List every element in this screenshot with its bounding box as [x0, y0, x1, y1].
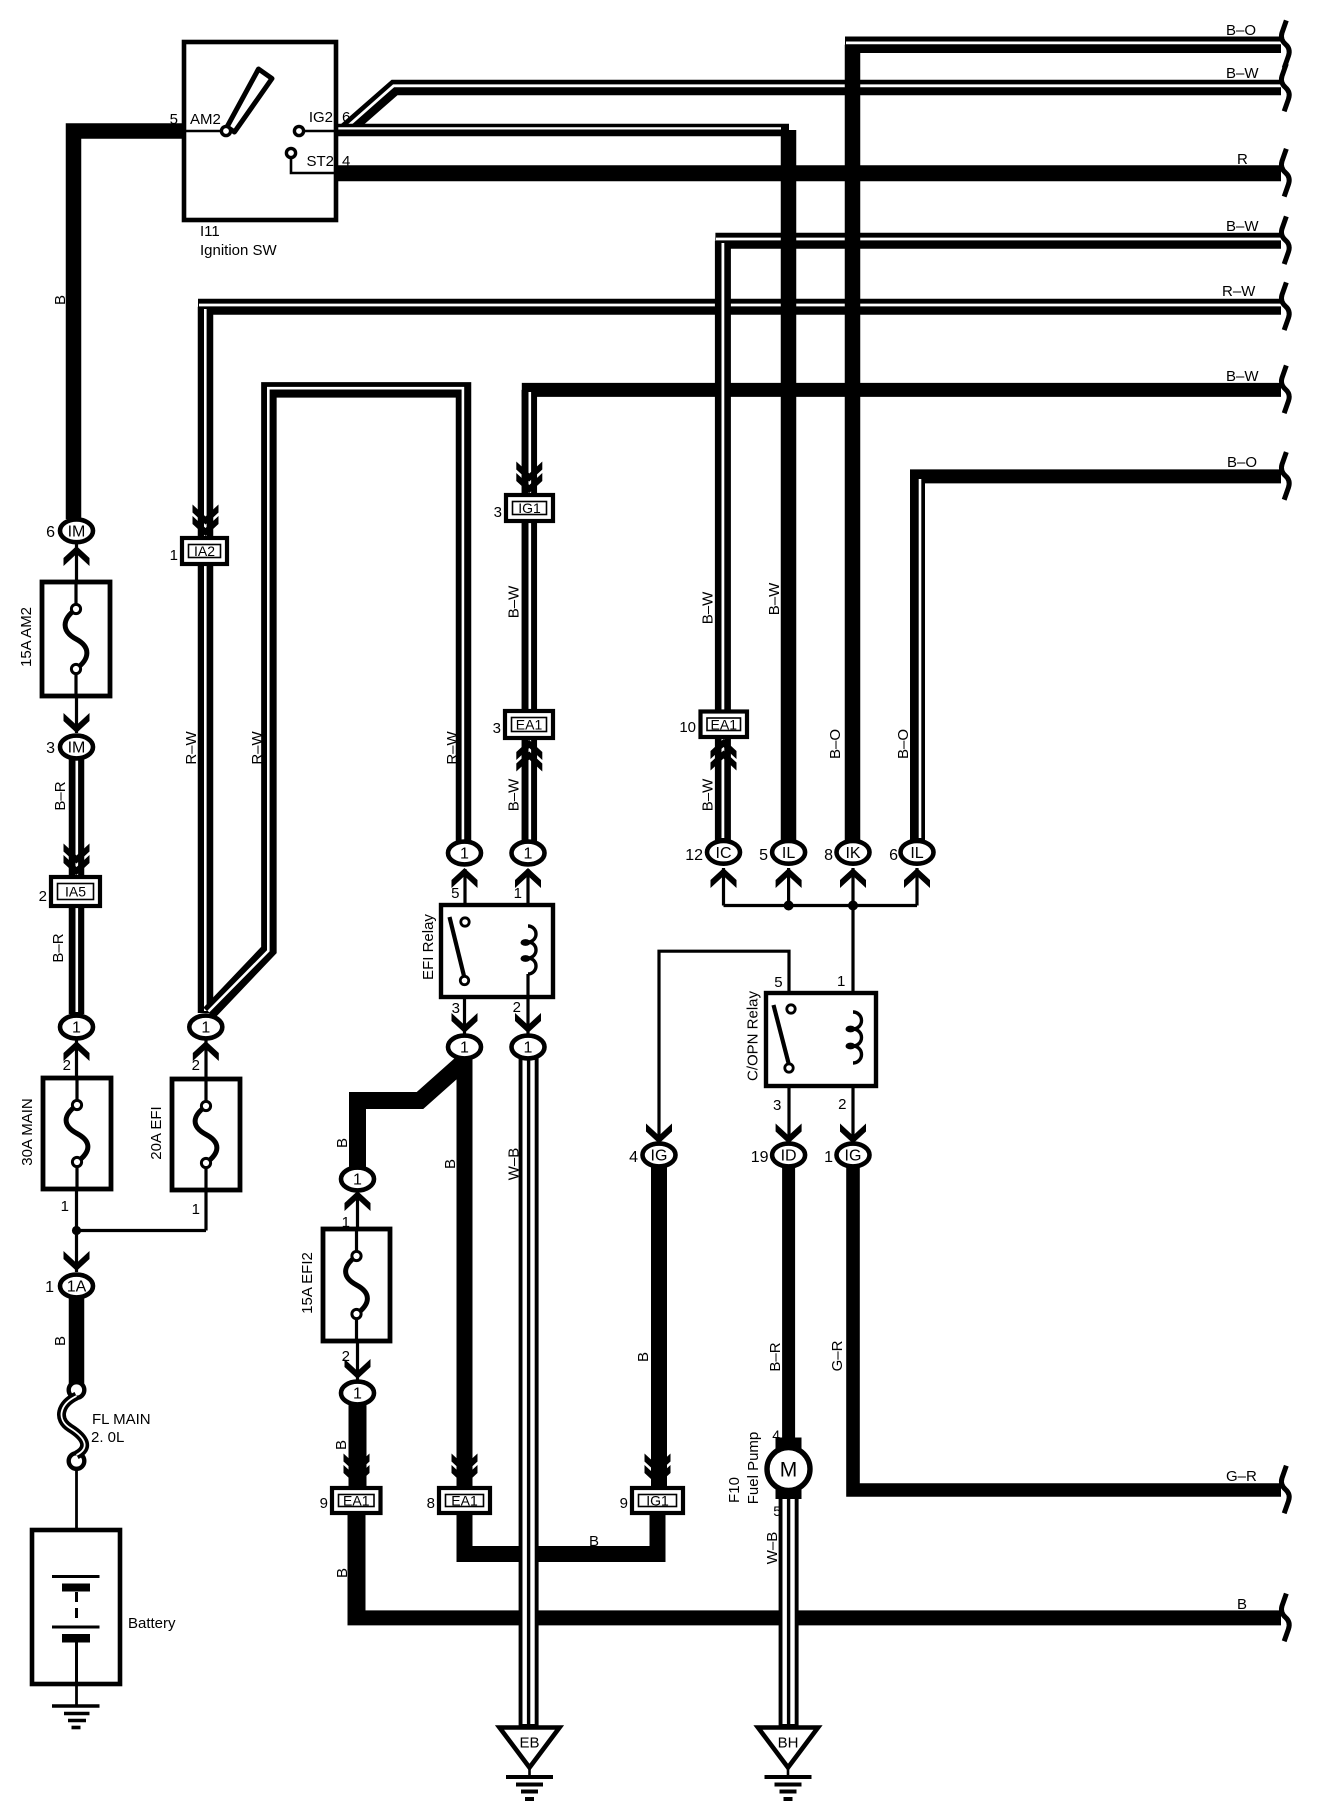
wire B-O: vertical x852 from row 1 corner down to 8 IK, solid — [845, 45, 861, 840]
arrow into 8 IK — [840, 868, 866, 888]
connector 1 1A — [60, 1275, 93, 1298]
svg-text:B: B — [333, 1440, 350, 1450]
wire B: from connector 9 EA1 down x356 — [348, 1510, 366, 1625]
wire B-O: vertical x917 from row 7 corner down to 6 IL (double) — [918, 476, 921, 840]
svg-text:1: 1 — [524, 846, 533, 863]
svg-text:1: 1 — [61, 1198, 69, 1215]
connector 12 IC — [707, 841, 740, 864]
splice 1 above 20A EFI — [189, 1016, 222, 1039]
svg-text:IM: IM — [68, 523, 86, 540]
wire: splice 1 to fuse 20A EFI pin 2 — [204, 1040, 207, 1108]
svg-text:M: M — [780, 1459, 798, 1482]
svg-text:IC: IC — [716, 845, 732, 862]
svg-text:1: 1 — [192, 1201, 200, 1218]
svg-text:3: 3 — [773, 1097, 781, 1114]
fuse 15A AM2 — [42, 582, 110, 696]
arrow into 4 IG — [646, 1124, 672, 1144]
svg-text:15A AM2: 15A AM2 — [18, 607, 35, 667]
svg-text:EA1: EA1 — [516, 717, 543, 733]
svg-text:B: B — [442, 1159, 459, 1169]
svg-text:1: 1 — [342, 1214, 350, 1231]
wire B-R: connector 19 ID down to fuel pump pin 4 — [782, 1167, 795, 1440]
terminator row 8 — [1281, 1468, 1289, 1511]
splice 1 at EFI relay pin 1 — [512, 842, 545, 865]
svg-text:AM2: AM2 — [190, 111, 221, 128]
splice 1 at EFI relay pin 5 — [448, 842, 481, 865]
terminator row 5 — [1281, 285, 1289, 328]
svg-text:1A: 1A — [67, 1279, 87, 1296]
arrow into 1 IA2 — [193, 505, 219, 537]
svg-text:IG1: IG1 — [518, 500, 541, 516]
wire W-B: fuel pump pin 5 down to ground BH (outlined) — [785, 1497, 793, 1726]
wire B: splice 1A down to fusible link FL MAIN — [69, 1296, 85, 1385]
svg-text:IG: IG — [845, 1148, 862, 1165]
svg-text:R–W: R–W — [444, 730, 461, 764]
svg-text:EB: EB — [519, 1735, 539, 1752]
svg-text:IL: IL — [782, 845, 795, 862]
svg-text:1: 1 — [201, 1020, 210, 1037]
wire B: EFI relay pin 3 splice down to 8 EA1 — [457, 1058, 473, 1488]
EFI relay box — [441, 905, 553, 997]
svg-text:Battery: Battery — [128, 1615, 176, 1632]
svg-text:EA1: EA1 — [343, 1493, 370, 1509]
ground BH — [758, 1728, 818, 1800]
arrow into 9 EA1 — [344, 1454, 370, 1486]
svg-text:B–W: B–W — [506, 778, 523, 811]
wire B-O: row 1 to right edge (double) — [845, 43, 1281, 45]
svg-text:6: 6 — [342, 109, 350, 126]
svg-text:B: B — [334, 1568, 351, 1578]
connector 10 EA1 — [701, 712, 748, 738]
wire: C/OPN relay pin 2 to connector 1 IG — [851, 1062, 854, 1144]
svg-text:EA1: EA1 — [451, 1493, 478, 1509]
arrow into 1 IG — [840, 1124, 866, 1144]
svg-text:1: 1 — [824, 1149, 833, 1166]
wire: C/OPN relay pin 5 loop over to connector 4 IG — [659, 951, 789, 1143]
wire B: connector 4 IG down to 9 IG1 — [651, 1167, 667, 1488]
wire: FL MAIN to battery positive plate — [75, 1468, 78, 1575]
svg-text:B–O: B–O — [1226, 22, 1256, 39]
svg-text:W–B: W–B — [506, 1148, 523, 1181]
wire R-W: loop from EFI relay pin 5 up over to x269 and down to splice 1 (double) — [208, 388, 463, 1013]
wire B-W: vertical x723 from row 4 down to 12 IC (double) — [715, 241, 731, 840]
arrow into 1 1A — [64, 1251, 90, 1271]
svg-text:30A MAIN: 30A MAIN — [19, 1098, 36, 1166]
svg-text:1: 1 — [460, 1040, 469, 1057]
connector 1 IA2 — [182, 538, 227, 564]
svg-text:B–R: B–R — [767, 1342, 784, 1371]
svg-text:R–W: R–W — [183, 730, 200, 764]
C/OPN relay coil — [846, 1012, 862, 1063]
wire B-W: ignition IG2 pin 6 horizontal run to x788 (double) — [336, 128, 789, 130]
arrow into splice at EFI relay pin 2 — [515, 1013, 541, 1033]
connector 1 IG — [837, 1144, 870, 1167]
arrow into 3 EA1 — [516, 740, 542, 772]
connector 19 ID — [772, 1144, 805, 1167]
svg-text:1: 1 — [514, 885, 522, 902]
svg-text:5: 5 — [451, 885, 459, 902]
wire W-B: EFI relay pin 2 splice down to ground EB (outlined) — [525, 1058, 533, 1726]
wire: riser to 12 IC — [722, 868, 725, 906]
svg-text:10: 10 — [679, 719, 696, 736]
wire: ST2 terminal stem to box edge — [291, 156, 336, 173]
connector 6 IM — [60, 519, 93, 542]
fuse 30A MAIN — [43, 1078, 111, 1189]
splice 1 at EFI relay pin 2 — [512, 1036, 545, 1059]
svg-text:IG1: IG1 — [646, 1493, 669, 1509]
wire: C/OPN relay pin 3 to connector 19 ID — [787, 1068, 790, 1144]
node: bus junction under 5 IL — [784, 901, 794, 911]
arrow into splice at EFI relay pin 5 — [452, 868, 478, 888]
wire: EFI relay pin 1 to splice 1 — [526, 869, 529, 926]
svg-text:IK: IK — [845, 845, 860, 862]
wire: bus line joining connectors IC IL IK IL to C/OPN relay pin 1 — [724, 904, 918, 907]
wire: junction to fuse 20A EFI pin 1 — [77, 1229, 207, 1232]
arrow into 9 IG1 — [645, 1454, 671, 1486]
C/OPN relay upper contact — [787, 1005, 795, 1013]
svg-text:B–R: B–R — [52, 781, 69, 810]
svg-text:IL: IL — [910, 845, 923, 862]
wire B-W: vertical x529 from row 6 corner down through 3 IG1 and 3 EA1 to EFI relay pin 1 (double) — [522, 390, 538, 842]
svg-text:BH: BH — [778, 1735, 799, 1752]
svg-text:3: 3 — [46, 740, 55, 757]
svg-text:EA1: EA1 — [711, 716, 738, 732]
arrow into 3 IM — [64, 713, 90, 733]
svg-text:F10: F10 — [726, 1477, 743, 1503]
svg-text:FL MAIN: FL MAIN — [92, 1411, 151, 1428]
svg-text:G–R: G–R — [1226, 1468, 1257, 1485]
svg-text:G–R: G–R — [829, 1340, 846, 1371]
terminal IG2 contact — [294, 126, 303, 135]
svg-text:5: 5 — [170, 111, 178, 128]
svg-text:5: 5 — [759, 847, 768, 864]
splice 1 above 30A MAIN — [60, 1016, 93, 1039]
splice 1 above 15A EFI2 — [341, 1168, 374, 1191]
svg-text:2. 0L: 2. 0L — [91, 1429, 124, 1446]
connector 5 IL — [772, 841, 805, 864]
wire: riser to 8 IK — [851, 868, 854, 906]
svg-text:19: 19 — [751, 1149, 769, 1166]
svg-text:20A EFI: 20A EFI — [148, 1106, 165, 1159]
connector 3 IM — [60, 736, 93, 759]
EFI relay lower contact — [460, 976, 468, 984]
svg-text:B–O: B–O — [1227, 454, 1257, 471]
battery lower thin plate — [52, 1626, 100, 1629]
svg-text:8: 8 — [427, 1495, 435, 1512]
svg-text:1: 1 — [460, 846, 469, 863]
svg-text:R–W: R–W — [1222, 283, 1256, 300]
wire: riser to 5 IL — [787, 868, 790, 906]
connector 4 IG — [643, 1144, 676, 1167]
connector 3 IG1 — [506, 495, 553, 521]
arrow into 8 EA1 — [452, 1454, 478, 1486]
svg-text:B–W: B–W — [700, 591, 717, 624]
svg-text:4: 4 — [342, 153, 350, 170]
svg-text:9: 9 — [320, 1495, 328, 1512]
svg-text:3: 3 — [494, 504, 502, 521]
svg-text:B–W: B–W — [1226, 65, 1259, 82]
wire B: bottom row to right edge — [348, 1610, 1282, 1625]
wire G-R: from C/OPN relay pin 2 connector IG down x853 then right edge — [853, 1167, 1281, 1490]
fuse 20A EFI — [172, 1079, 240, 1190]
terminator row 7 — [1281, 454, 1289, 497]
ignition switch lever — [227, 69, 272, 132]
wire: riser to 6 IL — [915, 868, 918, 906]
svg-text:6: 6 — [46, 524, 55, 541]
svg-text:B–R: B–R — [50, 933, 67, 962]
battery positive plate — [52, 1575, 100, 1578]
svg-text:6: 6 — [889, 847, 898, 864]
svg-text:B–W: B–W — [700, 778, 717, 811]
svg-text:ST2: ST2 — [306, 153, 334, 170]
wire B: branch from EFI relay splice to 15A EFI2 fuse via jog — [358, 1064, 462, 1168]
svg-text:B: B — [1237, 1596, 1247, 1613]
arrow into splice below 15A EFI2 — [345, 1359, 371, 1379]
wire R: ignition ST2 pin 4 to right edge, solid thick — [336, 165, 1281, 181]
splice 1 at EFI relay pin 3 — [448, 1036, 481, 1059]
ignition switch I11 box — [184, 42, 336, 220]
arrow into 2 IA5 — [64, 844, 90, 876]
wire: fuse 20A EFI pin 1 down to junction line — [204, 1162, 207, 1231]
connector 3 EA1 — [505, 711, 553, 738]
svg-text:IG: IG — [651, 1148, 668, 1165]
wire B: 15A EFI2 lower splice down to 9 EA1 — [349, 1404, 367, 1488]
fuse 15A EFI2 — [323, 1229, 390, 1341]
svg-text:I11: I11 — [200, 223, 220, 240]
wire: battery negative to box bottom — [75, 1642, 78, 1684]
arrow into 10 EA1 — [711, 739, 737, 771]
wire: EFI relay pin 3 to splice 1 — [463, 984, 466, 1034]
terminal AM2 contact — [221, 126, 230, 135]
connector 9 EA1 — [332, 1488, 381, 1513]
svg-text:C/OPN Relay: C/OPN Relay — [745, 990, 762, 1081]
arrow into splice at EFI relay pin 3 — [452, 1013, 478, 1033]
arrow into splice above 30A MAIN — [64, 1041, 90, 1061]
arrow into splice at EFI relay pin 1 — [515, 868, 541, 888]
svg-text:B–W: B–W — [506, 585, 523, 618]
wire B-W: IG2 branch diagonal up to row 2 then right edge (double) — [346, 86, 1281, 130]
wire B-R: 3 IM to 2 IA5 to splice (double) — [69, 758, 85, 1014]
wire B: battery feed, ignition AM2 pin 5 to left edge then down to 6 IM — [74, 131, 185, 519]
arrow into 6 IM — [64, 546, 90, 566]
svg-text:8: 8 — [824, 847, 833, 864]
terminator row 6 — [1281, 368, 1289, 411]
node: junction dot below 30A MAIN — [72, 1226, 81, 1235]
svg-text:2: 2 — [39, 888, 47, 905]
connector 8 IK — [837, 841, 870, 864]
wire: junction down to splice 1A — [75, 1231, 78, 1273]
svg-text:IA2: IA2 — [194, 543, 215, 559]
wire B-W: vertical x788 from IG2 run down to 5 IL, solid — [781, 130, 797, 840]
svg-text:15A EFI2: 15A EFI2 — [299, 1252, 316, 1314]
wire: splice 1 to fuse 15A EFI2 pin 1 — [356, 1190, 359, 1258]
svg-text:1: 1 — [837, 973, 845, 990]
wire B-W: row 6 from corner x529 to right edge, solid — [522, 383, 1281, 397]
arrow into 6 IL — [904, 868, 930, 888]
svg-text:12: 12 — [685, 847, 703, 864]
svg-text:R–W: R–W — [249, 730, 266, 764]
terminator row 9 — [1281, 1596, 1289, 1639]
arrow into splice above 20A EFI — [193, 1041, 219, 1061]
arrow into splice above 15A EFI2 — [345, 1191, 371, 1211]
arrow into 12 IC — [711, 868, 737, 888]
battery plate bar upper — [62, 1584, 90, 1592]
svg-text:Fuel Pump: Fuel Pump — [745, 1432, 762, 1505]
svg-text:1: 1 — [170, 547, 178, 564]
wire: splice 1 to fuse 30A MAIN pin 2 — [75, 1040, 78, 1108]
svg-text:B–O: B–O — [895, 729, 912, 759]
EFI relay switch arm — [450, 917, 465, 976]
wire: fuse 15A AM2 to 3 IM — [75, 668, 78, 733]
svg-text:2: 2 — [513, 999, 521, 1016]
ground EB — [500, 1728, 560, 1800]
wire: EFI relay pin 2 to splice 1 — [526, 997, 529, 1034]
terminator row 3 — [1281, 151, 1289, 194]
wire: fuse 15A EFI2 pin 2 down to splice 1 — [356, 1312, 359, 1380]
wire B-W: row 4 from corner x723 to right edge (double) — [715, 239, 1281, 241]
battery dashed middle link — [75, 1592, 78, 1624]
svg-text:B: B — [52, 1336, 69, 1346]
wire: AM2 terminal to box edge — [184, 130, 224, 133]
wire B: link 8 EA1 to 9 IG1 bottom U-shape — [465, 1510, 658, 1554]
wire: 6 IM to fuse 15A AM2 — [75, 543, 78, 610]
svg-text:B–W: B–W — [1226, 368, 1259, 385]
svg-text:2: 2 — [838, 1096, 846, 1113]
fusible link FL MAIN 2.0L — [61, 1382, 84, 1469]
svg-text:B–O: B–O — [827, 729, 844, 759]
EFI relay coil — [521, 926, 537, 997]
node: bus junction under 8 IK — [848, 901, 858, 911]
wire: fuse 30A MAIN pin 1 to junction — [75, 1162, 78, 1231]
connector 2 IA5 — [51, 877, 100, 906]
svg-text:R: R — [1237, 151, 1248, 168]
svg-text:B: B — [635, 1352, 652, 1362]
fuel pump F10 motor — [767, 1438, 810, 1500]
wire: IG2 terminal to box edge — [301, 130, 336, 133]
svg-text:1: 1 — [45, 1279, 54, 1296]
arrow into 3 IG1 — [516, 462, 542, 494]
svg-text:B: B — [334, 1138, 351, 1148]
terminator row 1 — [1281, 23, 1289, 66]
svg-text:IA5: IA5 — [65, 884, 86, 900]
C/OPN relay lower contact — [785, 1064, 793, 1072]
svg-text:9: 9 — [620, 1495, 628, 1512]
svg-text:1: 1 — [524, 1040, 533, 1057]
svg-text:4: 4 — [629, 1149, 638, 1166]
svg-text:EFI Relay: EFI Relay — [420, 914, 437, 980]
wire: bus down to C/OPN relay pin 1 — [851, 906, 854, 1011]
EFI relay upper contact — [461, 918, 469, 926]
svg-text:3: 3 — [493, 720, 501, 737]
svg-text:IM: IM — [68, 740, 86, 757]
ground: battery earth — [52, 1684, 100, 1728]
svg-text:B: B — [52, 295, 69, 305]
svg-text:ID: ID — [781, 1148, 797, 1165]
wire R-W: row 5 from corner x205 to right edge (double) — [198, 305, 1281, 307]
terminator row 4 — [1281, 219, 1289, 262]
battery plate bar lower — [62, 1634, 90, 1643]
connector 9 IG1 — [632, 1488, 683, 1513]
svg-text:5: 5 — [774, 974, 782, 991]
wire B-O: row 7 from corner x917 to right edge, solid — [910, 469, 1281, 483]
svg-text:IG2: IG2 — [309, 109, 333, 126]
arrow into 5 IL — [776, 868, 802, 888]
wire R-W: vertical x205 from row 5 corner down through 1 IA2 to splice 1 (double) — [198, 307, 214, 1013]
svg-text:4: 4 — [772, 1427, 780, 1443]
battery box — [32, 1530, 120, 1684]
wire: EFI relay pin 5 to splice 1 — [463, 869, 466, 922]
svg-text:B: B — [589, 1533, 599, 1550]
C/OPN relay switch arm — [774, 1005, 789, 1063]
svg-text:Ignition SW: Ignition SW — [200, 242, 278, 259]
arrow into 19 ID — [776, 1124, 802, 1144]
splice 1 below 15A EFI2 — [341, 1382, 374, 1405]
svg-text:B–W: B–W — [766, 582, 783, 615]
terminal ST2 contact — [286, 148, 295, 157]
svg-text:5: 5 — [773, 1503, 781, 1519]
connector 6 IL — [901, 841, 934, 864]
svg-text:1: 1 — [353, 1386, 362, 1403]
svg-text:W–B: W–B — [764, 1532, 781, 1565]
svg-text:1: 1 — [72, 1020, 81, 1037]
C/OPN relay box — [766, 993, 876, 1086]
connector 8 EA1 — [439, 1488, 490, 1513]
svg-text:B–W: B–W — [1226, 218, 1259, 235]
svg-text:1: 1 — [353, 1172, 362, 1189]
terminator row 2 — [1281, 66, 1289, 109]
